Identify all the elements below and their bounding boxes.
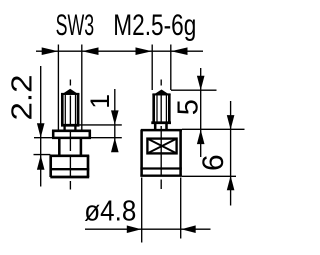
extension line M2.5 left: [151, 45, 153, 91]
left neck: [63, 127, 65, 131]
right body bottom: [140, 175, 181, 177]
arrow 5 top: [197, 76, 205, 91]
extension line 1-top: [80, 124, 122, 126]
dimension line 1: [114, 89, 116, 152]
left hex walls: [58, 139, 61, 157]
svg-text:M2.5-6g: M2.5-6g: [113, 9, 196, 42]
right stud chamfer: [152, 90, 170, 96]
arrow diameter left: [127, 225, 142, 233]
left stud walls: [61, 93, 64, 125]
extension line stud top right: [171, 89, 217, 91]
arrow 6 top: [227, 115, 235, 130]
extension line body bottom right: [182, 175, 236, 177]
svg-text:SW3: SW3: [56, 9, 95, 42]
svg-text:2.2: 2.2: [7, 75, 39, 121]
arrow M2.5 right: [171, 47, 188, 55]
left block bottom: [50, 176, 89, 179]
arrow M2.5 left: [136, 47, 153, 55]
right body sides: [140, 130, 143, 177]
arrow 1 bottom: [111, 138, 119, 153]
right centerline: [160, 80, 162, 190]
right stud bottom: [151, 121, 171, 124]
left flange top: [52, 130, 91, 133]
left block top: [50, 154, 90, 157]
left stud chamfer: [61, 89, 79, 95]
extension line M2.5 right: [170, 45, 172, 91]
svg-text:5: 5: [173, 99, 205, 115]
left stud bottom: [61, 124, 80, 127]
dimension line 5: [200, 68, 202, 157]
dimension line 6: [230, 101, 232, 206]
arrow 2.2 top: [37, 123, 45, 138]
X-box: [147, 139, 176, 154]
extension line block top: [34, 154, 51, 156]
extension line SW3 right: [81, 45, 83, 131]
dimension line diameter: [85, 228, 211, 230]
extension line flange bottom long: [34, 137, 122, 139]
arrow 6 bottom: [227, 176, 235, 191]
svg-text:1: 1: [85, 94, 115, 109]
right neck: [154, 124, 157, 131]
right stud thread lines: [156, 95, 158, 122]
arrow 5 bottom: [197, 130, 205, 145]
arrow SW3 right: [82, 47, 99, 55]
left stud thread lines: [64, 94, 66, 124]
left flange bottom thick: [52, 137, 91, 140]
dimension line 2.2: [40, 66, 42, 187]
right body inner line: [140, 167, 181, 169]
arrow 2.2 bottom: [37, 155, 45, 170]
svg-text:6: 6: [197, 154, 230, 171]
extension line body top right: [182, 128, 245, 130]
svg-text:ø4.8: ø4.8: [84, 196, 136, 228]
left block sides: [49, 156, 52, 178]
left block inner line: [50, 168, 89, 170]
left flange sides: [52, 130, 55, 138]
right body top: [141, 129, 182, 132]
arrow diameter right: [181, 225, 196, 233]
extension line diameter right: [180, 178, 182, 239]
arrow 1 top: [111, 110, 119, 125]
dimension line top: [36, 50, 203, 52]
left centerline: [69, 80, 71, 190]
extension line diameter left: [141, 178, 143, 243]
right stud walls: [152, 94, 155, 122]
X-box diagonals: [147, 139, 176, 154]
arrow SW3 left: [42, 47, 59, 55]
extension line SW3 left: [57, 45, 59, 131]
